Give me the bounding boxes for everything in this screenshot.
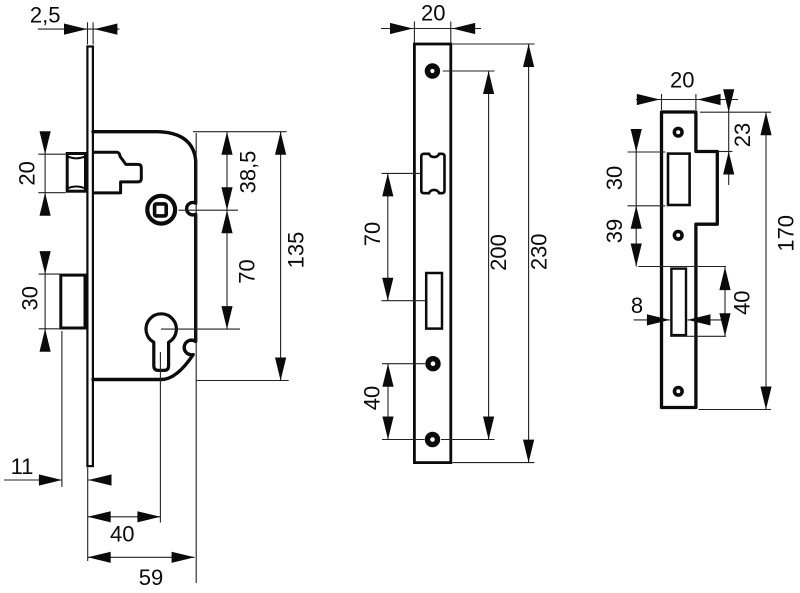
svg-text:40: 40 bbox=[730, 290, 755, 314]
svg-text:70: 70 bbox=[360, 222, 385, 246]
svg-text:39: 39 bbox=[602, 219, 627, 243]
svg-text:38,5: 38,5 bbox=[235, 151, 260, 194]
svg-text:30: 30 bbox=[602, 166, 627, 190]
svg-text:40: 40 bbox=[359, 386, 384, 410]
svg-text:30: 30 bbox=[17, 286, 42, 310]
svg-text:135: 135 bbox=[284, 232, 309, 269]
svg-text:11: 11 bbox=[11, 454, 34, 479]
svg-text:70: 70 bbox=[235, 259, 260, 283]
svg-text:230: 230 bbox=[526, 233, 551, 270]
svg-text:20: 20 bbox=[14, 161, 39, 185]
svg-text:59: 59 bbox=[139, 565, 163, 590]
svg-text:200: 200 bbox=[486, 234, 511, 271]
svg-text:20: 20 bbox=[670, 68, 694, 93]
svg-text:23: 23 bbox=[730, 123, 755, 147]
svg-text:170: 170 bbox=[774, 215, 799, 252]
svg-text:8: 8 bbox=[631, 293, 643, 318]
svg-text:2,5: 2,5 bbox=[30, 3, 61, 28]
svg-text:40: 40 bbox=[110, 521, 134, 546]
svg-text:20: 20 bbox=[421, 1, 445, 26]
